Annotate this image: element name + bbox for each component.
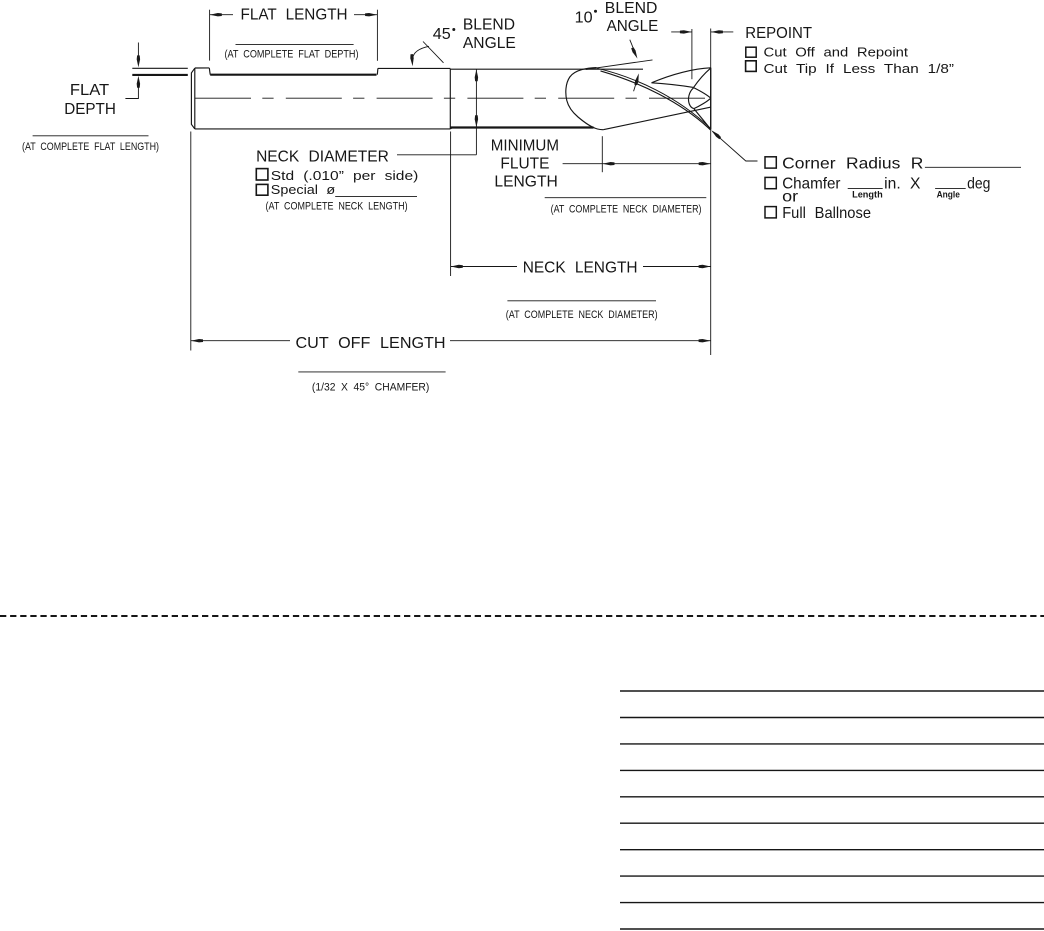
minimum flute length overline	[545, 197, 707, 199]
10 degree second arrow leader segment	[634, 81, 637, 92]
neck top edge	[450, 68, 643, 70]
cut off length right arrowhead	[699, 339, 711, 342]
flat top edge (thick Weldon flat line)	[210, 74, 376, 76]
center petal lower arc	[694, 98, 711, 108]
body bottom edge	[195, 128, 450, 130]
10 degree leader arrowhead (down-right)	[631, 47, 637, 58]
svg-text:FLUTE: FLUTE	[500, 156, 549, 173]
FLAT LENGTH dimension line right segment	[354, 14, 377, 16]
corner radius blank line	[925, 166, 1021, 168]
svg-text:NECK DIAMETER: NECK DIAMETER	[256, 149, 389, 166]
neck bottom edge (thick)	[450, 126, 593, 128]
minimum flute length left extension line	[601, 136, 603, 172]
REPOINT right arrowhead (left pointing)	[711, 30, 723, 33]
flute relief egg outline	[566, 68, 603, 130]
10 degree second arrow on flute line (up)	[634, 73, 638, 85]
tool left face inner vertical edge	[194, 68, 196, 129]
flute helix edge lower	[601, 71, 711, 130]
FLAT LENGTH left arrowhead	[210, 13, 222, 16]
chamfer angle blank line	[935, 188, 966, 190]
FLAT DEPTH upper arrowhead (down)	[137, 55, 140, 67]
degree dot for 10	[594, 10, 597, 13]
svg-text:10: 10	[575, 10, 593, 27]
neck length dimension line left	[451, 266, 517, 268]
svg-text:NECK LENGTH: NECK LENGTH	[523, 260, 638, 277]
cut off length dimension line right	[450, 340, 711, 342]
svg-text:Angle: Angle	[937, 190, 960, 200]
neck length overline	[507, 300, 656, 302]
FLAT LENGTH right extension line	[376, 10, 378, 61]
svg-text:(AT COMPLETE FLAT LENGTH): (AT COMPLETE FLAT LENGTH)	[22, 141, 159, 153]
svg-text:FLAT LENGTH: FLAT LENGTH	[241, 7, 348, 24]
cut off length left arrowhead	[191, 339, 203, 342]
repoint cut off checkbox	[746, 47, 756, 57]
flat step down	[208, 68, 211, 75]
svg-text:(AT COMPLETE NECK LENGTH): (AT COMPLETE NECK LENGTH)	[266, 201, 408, 213]
FLAT DEPTH dimension upper segment with down arrow	[137, 43, 139, 57]
FLAT LENGTH dimension line left segment	[210, 14, 233, 16]
svg-text:(AT COMPLETE NECK DIAMETER): (AT COMPLETE NECK DIAMETER)	[551, 204, 702, 216]
svg-text:REPOINT: REPOINT	[745, 25, 812, 42]
svg-text:in. X: in. X	[884, 176, 921, 193]
REPOINT dimension line left part	[671, 31, 692, 33]
FLAT LENGTH left extension line	[209, 10, 211, 61]
FLAT LENGTH right arrowhead	[365, 13, 377, 16]
end tooth gash curve (corner to hub)	[694, 68, 711, 87]
svg-text:Corner Radius R: Corner Radius R	[782, 155, 923, 172]
svg-text:or: or	[782, 188, 798, 205]
svg-text:FLAT: FLAT	[70, 82, 110, 99]
svg-text:Std (.010” per side): Std (.010” per side)	[271, 168, 419, 183]
neck length left extension line	[450, 132, 452, 277]
FLAT DEPTH lower segment and leader to text	[125, 80, 138, 99]
svg-text:Cut Tip If Less Than 1/8”: Cut Tip If Less Than 1/8”	[764, 61, 955, 76]
svg-text:(AT COMPLETE FLAT DEPTH): (AT COMPLETE FLAT DEPTH)	[225, 49, 359, 61]
neck diameter dimension vertical line	[475, 69, 477, 155]
flat step up	[376, 68, 379, 74]
flat depth overline	[33, 135, 149, 137]
cut off length dimension line left	[191, 340, 290, 342]
45 degree curved arrow	[413, 46, 429, 58]
flute helix edge upper	[597, 68, 711, 128]
tool left face outer contour with chamfered corners	[191, 68, 194, 129]
svg-text:45: 45	[433, 26, 451, 43]
tip face vertical line	[710, 68, 712, 130]
shoulder step bottom	[450, 128, 452, 129]
tip face extension line down to cut off dimension	[710, 29, 712, 356]
neck diameter leader horizontal	[397, 154, 476, 156]
svg-text:Special ø: Special ø	[271, 182, 335, 197]
neck diameter std checkbox	[256, 169, 268, 180]
svg-text:Cut Off and Repoint: Cut Off and Repoint	[764, 44, 909, 59]
svg-text:MINIMUM: MINIMUM	[491, 138, 559, 155]
petal-bottom to tip corner curve	[694, 109, 711, 130]
center petal upper arc	[694, 88, 711, 98]
FLAT LENGTH blank underline	[236, 44, 354, 46]
cut off length left extension line	[190, 132, 192, 351]
neck length left arrowhead	[451, 265, 463, 268]
corner radius leader arrowhead at tip corner	[711, 130, 721, 139]
body top edge left of flat	[195, 67, 210, 69]
neck diameter bottom arrowhead (down)	[475, 115, 478, 127]
svg-text:(1/32 X 45° CHAMFER): (1/32 X 45° CHAMFER)	[312, 382, 430, 394]
svg-text:Full Ballnose: Full Ballnose	[782, 205, 871, 222]
chamfer checkbox	[765, 177, 776, 188]
repoint cut tip checkbox	[746, 61, 757, 72]
centerline (dash-dot)	[189, 97, 711, 99]
neck diameter top arrowhead (up)	[475, 69, 478, 81]
svg-text:CUT OFF LENGTH: CUT OFF LENGTH	[296, 335, 446, 352]
ruled table lines	[620, 691, 1044, 929]
end tooth bottom line	[652, 83, 694, 88]
45 degree blend reference diagonal	[423, 42, 444, 63]
neck length right arrowhead	[699, 265, 711, 268]
head lower relief edge	[603, 107, 710, 130]
chamfer length blank line	[848, 188, 883, 190]
full ballnose checkbox	[765, 207, 776, 218]
dashed separator line	[0, 615, 1044, 617]
center petal left arc	[689, 88, 694, 109]
svg-text:DEPTH: DEPTH	[64, 101, 116, 118]
cut off length overline	[298, 371, 445, 373]
svg-text:(AT COMPLETE NECK DIAMETER): (AT COMPLETE NECK DIAMETER)	[506, 309, 658, 321]
svg-text:Length: Length	[852, 190, 883, 200]
corner radius leader line	[713, 131, 758, 161]
neck diameter special checkbox	[256, 184, 268, 195]
flat depth extension line lower (flat level, thick)	[132, 74, 188, 76]
neck diameter special blank line	[335, 196, 417, 198]
degree dot for 45	[452, 28, 455, 31]
svg-text:ANGLE: ANGLE	[463, 35, 516, 52]
body/neck top edge	[378, 67, 450, 69]
10 degree leader line	[630, 40, 635, 53]
svg-text:BLEND: BLEND	[605, 0, 658, 17]
svg-text:LENGTH: LENGTH	[494, 174, 557, 191]
svg-text:deg: deg	[967, 176, 990, 193]
minimum flute length dimension line	[563, 163, 711, 165]
minimum flute length left arrowhead	[603, 162, 615, 165]
REPOINT left extension line	[691, 29, 693, 79]
REPOINT dimension line right part	[711, 31, 733, 33]
svg-text:ANGLE: ANGLE	[607, 18, 659, 35]
end tooth top curve	[652, 68, 711, 83]
minimum flute length right arrowhead	[699, 162, 711, 165]
flat depth extension line upper (tool OD)	[132, 67, 188, 69]
10 degree blend reference line	[586, 60, 653, 70]
FLAT DEPTH lower arrowhead (up)	[137, 76, 140, 88]
shoulder vertical line	[449, 69, 451, 129]
corner radius checkbox	[765, 157, 776, 168]
neck length dimension line right	[643, 266, 711, 268]
REPOINT left arrowhead (right pointing)	[680, 30, 692, 33]
svg-text:BLEND: BLEND	[463, 16, 515, 33]
45 degree arc arrowhead (down)	[410, 54, 413, 66]
